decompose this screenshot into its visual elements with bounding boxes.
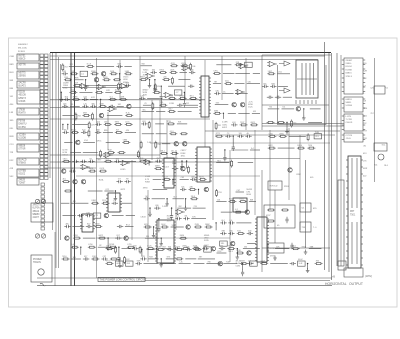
svg-text:750: 750 — [269, 107, 272, 109]
wire top-mid-right cluster r3 — [247, 82, 260, 84]
input jack block J8 — [17, 133, 39, 140]
transistor Q209 — [232, 103, 236, 107]
input jack block J9 — [17, 144, 39, 152]
svg-text:+B: +B — [332, 276, 335, 279]
svg-text:C67: C67 — [116, 235, 119, 237]
op-amp A5 — [163, 92, 173, 97]
svg-text:24629: 24629 — [19, 180, 26, 182]
svg-text:982: 982 — [118, 104, 121, 106]
svg-text:C65: C65 — [181, 177, 184, 179]
svg-text:627: 627 — [84, 256, 87, 258]
wire mid-middle band r3 — [162, 143, 171, 145]
wire mid-left band r1 — [62, 115, 74, 117]
wire lower-middle field r1 — [180, 177, 189, 179]
svg-text:R57R: R57R — [229, 199, 234, 201]
svg-text:58L1: 58L1 — [161, 150, 165, 152]
svg-text:2680: 2680 — [182, 246, 186, 248]
junction with drop top-left amp cluster r2 — [119, 73, 120, 79]
wire mid-middle band r1 — [155, 123, 164, 125]
resistor R223 — [75, 113, 81, 121]
svg-text:106: 106 — [192, 66, 195, 68]
wire vertical branch 9 — [288, 128, 290, 200]
wire bottom band r2 — [206, 261, 222, 263]
svg-text:06KR: 06KR — [155, 166, 160, 168]
transistor Q388 — [124, 236, 128, 240]
resistor R184 — [152, 102, 154, 110]
wire lower-middle field r4 — [177, 206, 191, 208]
resistor R181 — [179, 95, 187, 99]
svg-text:L99: L99 — [87, 213, 90, 215]
far right pin labels — [363, 63, 368, 178]
top left corner notes — [18, 44, 29, 53]
svg-text:33L9: 33L9 — [191, 196, 195, 198]
svg-text:380: 380 — [91, 103, 94, 105]
wire main vertical bus B — [74, 53, 76, 286]
svg-text:380A2: 380A2 — [33, 210, 40, 213]
wire right bus 2 — [328, 53, 330, 272]
wire right bus 1 — [324, 42, 326, 270]
svg-text:K73: K73 — [167, 257, 170, 259]
svg-text:64953: 64953 — [346, 99, 353, 101]
junction with drop lower-left field r6 — [106, 237, 110, 250]
svg-text:C25: C25 — [370, 88, 373, 90]
svg-text:293: 293 — [63, 71, 66, 73]
svg-text:5.0R: 5.0R — [71, 244, 76, 246]
resistor R180 — [168, 95, 176, 99]
op-amp A2 — [96, 84, 106, 89]
junction with drop top-middle cluster r6 — [161, 98, 162, 107]
svg-text:R0AT9: R0AT9 — [19, 112, 27, 115]
junction with drop lower-left field r2 — [114, 190, 118, 200]
svg-text:R7.5: R7.5 — [190, 95, 194, 97]
svg-text:C.L: C.L — [232, 148, 235, 150]
wire mid rail 1 — [50, 99, 205, 101]
svg-text:T501: T501 — [350, 215, 356, 217]
op-amp A8 — [235, 89, 245, 94]
svg-text:958C9: 958C9 — [19, 59, 26, 61]
op-amp A15 — [175, 209, 185, 214]
capacitor C od1 — [290, 243, 293, 249]
resistor R468 — [216, 189, 222, 197]
wire lower-left field r8 — [72, 257, 81, 259]
wire lower-left field r3 — [71, 201, 88, 203]
potentiometer VR1 — [35, 199, 39, 203]
svg-text:54.: 54. — [302, 208, 305, 210]
svg-text:212: 212 — [186, 103, 189, 105]
IC U301 sync — [195, 147, 212, 182]
tuner unit block — [31, 203, 53, 222]
capacitor C458 — [185, 247, 191, 252]
svg-text:57KC: 57KC — [213, 70, 218, 72]
op-amp A14 — [143, 159, 153, 164]
svg-text:9339: 9339 — [228, 246, 232, 248]
flyback transformer T501 — [344, 156, 363, 277]
resistor R126 — [117, 83, 119, 91]
resistor R473 — [228, 199, 236, 203]
wire top-left amp cluster r3 — [74, 78, 84, 80]
svg-text:C06K: C06K — [99, 103, 104, 105]
input jack block J1 — [17, 54, 39, 61]
capacitor C355 — [124, 179, 130, 184]
capacitor C375 — [64, 224, 70, 229]
svg-text:R5K.: R5K. — [64, 77, 69, 79]
op-amp A13 — [80, 164, 90, 169]
resistor R334 — [277, 122, 285, 124]
output sub-circuit box — [264, 205, 295, 228]
note block mid-middle band r4 — [181, 150, 188, 157]
resistor R346 — [297, 145, 305, 149]
capacitor C366 — [112, 200, 118, 205]
capacitor C401 — [101, 256, 107, 261]
svg-text:R.1: R.1 — [385, 88, 388, 90]
svg-text:6KL104C: 6KL104C — [18, 48, 28, 50]
wire top-middle cluster r8 — [156, 111, 165, 113]
power low control note bar — [98, 277, 147, 281]
op-amp A10 — [107, 106, 117, 111]
wire top-right pre-IF r3 — [278, 85, 288, 87]
resistor R446 — [205, 224, 213, 228]
connector pin strip P2 — [41, 183, 44, 230]
svg-text:K57: K57 — [87, 224, 90, 226]
resistor R340 — [279, 133, 287, 137]
svg-text:R915: R915 — [160, 70, 165, 72]
wire lower-left field r4 — [63, 215, 76, 217]
svg-text:KL0C: KL0C — [298, 259, 303, 261]
junction with drop top-middle cluster r4 — [160, 86, 163, 101]
svg-text:.82: .82 — [99, 245, 102, 247]
junction with drop lower-left field r7 — [80, 247, 81, 255]
note block lower-mid-right field r1 — [246, 189, 252, 196]
capacitor C135 — [64, 96, 70, 101]
svg-text:512R6: 512R6 — [346, 105, 353, 107]
resistor R383 — [73, 235, 81, 239]
svg-text:TRANS: TRANS — [33, 261, 41, 264]
wire vertical branch 2 — [151, 100, 153, 160]
capacitor C187 — [177, 104, 183, 107]
capacitor C513 — [219, 246, 225, 251]
svg-text:45.: 45. — [71, 104, 74, 106]
wire bottom left of output stage — [261, 170, 263, 272]
svg-text:CC2: CC2 — [105, 189, 109, 191]
svg-text:C7.: C7. — [363, 86, 367, 88]
wire mid-middle band r1 — [177, 122, 187, 124]
svg-text:020L: 020L — [269, 133, 273, 135]
resistor R288 — [137, 150, 139, 158]
svg-text:401: 401 — [217, 199, 220, 201]
svg-text:13.L: 13.L — [171, 150, 175, 152]
svg-text:L68R: L68R — [120, 96, 125, 98]
junction with drop mid-right band r4 — [223, 149, 226, 161]
svg-text:7K16: 7K16 — [62, 256, 66, 258]
svg-text:07R8: 07R8 — [179, 95, 184, 97]
transistor Q372 — [104, 213, 108, 217]
svg-text:252: 252 — [157, 158, 160, 160]
svg-text:2K1: 2K1 — [218, 125, 221, 127]
resistor R254 — [100, 150, 102, 158]
svg-text:5817: 5817 — [268, 71, 272, 73]
wire lower-left field r6 — [83, 237, 96, 239]
transistor Q382 — [65, 236, 69, 240]
resistor R445 — [194, 224, 202, 228]
IC U302 — [162, 158, 176, 188]
svg-text:C34: C34 — [83, 96, 86, 98]
capacitor C320 — [245, 133, 251, 138]
module block bottom band r2 — [250, 261, 258, 266]
resistor R519 — [292, 246, 300, 250]
wire lower-left field r4 — [126, 215, 135, 217]
svg-text:953: 953 — [168, 247, 171, 249]
junction with drop top-left amp cluster r5 — [60, 92, 64, 102]
transistor Q494 — [247, 251, 251, 255]
svg-text:2C0: 2C0 — [278, 72, 281, 74]
svg-text:365: 365 — [263, 83, 266, 85]
svg-text:RLRC: RLRC — [199, 176, 205, 178]
junction with drop bottom band r1 — [156, 248, 157, 257]
resistor R474 — [239, 199, 247, 203]
svg-text:LK50: LK50 — [105, 158, 109, 160]
heater block — [342, 133, 365, 142]
junction with drop lower-middle field r5 — [157, 218, 160, 232]
junction with drop lower-middle field r3 — [165, 198, 169, 206]
resistor R196 — [213, 70, 221, 74]
wire mid-left band r3 — [125, 130, 136, 132]
wire top-mid-right cluster r5 — [215, 103, 229, 105]
wire right band r1 — [310, 108, 321, 110]
svg-text:B.REG: B.REG — [270, 248, 277, 250]
svg-text:7LK2: 7LK2 — [239, 199, 243, 201]
svg-text:045: 045 — [248, 82, 251, 84]
note block top-mid-right cluster r5 — [248, 102, 254, 109]
ground og2 — [273, 256, 277, 261]
junction with drop mid-left band r2 — [67, 124, 68, 130]
svg-text:8K1: 8K1 — [70, 64, 73, 66]
resistor R214 — [267, 71, 275, 75]
capacitor C419 — [144, 196, 150, 201]
svg-text:552R: 552R — [103, 77, 108, 79]
wire vertical branch 16 — [254, 130, 256, 215]
wire bottom band r1 — [122, 248, 131, 250]
svg-text:L13C: L13C — [125, 121, 130, 123]
wire right rail 3 — [262, 123, 344, 125]
junction with drop top-middle cluster r3 — [148, 79, 152, 88]
wire top-middle cluster r8 — [142, 109, 155, 111]
note block top-middle cluster r2 — [143, 69, 149, 76]
wire top bus 3 — [50, 59, 318, 61]
svg-text:392: 392 — [178, 206, 181, 208]
svg-text:M5775: M5775 — [19, 73, 27, 75]
capacitor C499 — [247, 261, 253, 266]
svg-text:78L: 78L — [64, 129, 67, 131]
resistor R232 — [88, 121, 95, 129]
svg-text:CRL: CRL — [215, 91, 219, 93]
svg-text:08C1: 08C1 — [251, 122, 256, 124]
svg-text:009: 009 — [63, 103, 66, 105]
svg-text:C37: C37 — [103, 256, 106, 258]
svg-text:424: 424 — [232, 122, 235, 124]
capacitor C481 — [228, 220, 234, 225]
resistor R153 — [181, 63, 189, 67]
resistor R228 — [125, 113, 133, 117]
resistor R235 — [114, 121, 122, 125]
capacitor C480 — [220, 220, 226, 225]
resistor R269 — [88, 168, 96, 172]
junction with drop top-left amp cluster r3 — [84, 79, 87, 91]
wire top supply bus B+ — [50, 52, 331, 54]
svg-text:R.4C: R.4C — [126, 113, 131, 115]
resistor R146 — [99, 103, 107, 107]
resistor R514 — [227, 246, 235, 250]
wire vertical branch 19 — [221, 56, 223, 100]
svg-text:9.4: 9.4 — [251, 148, 254, 150]
wire right band r1 — [268, 107, 280, 109]
wire top bus 2 — [50, 55, 325, 57]
resistor R152 — [170, 63, 178, 67]
capacitor C387 — [115, 235, 121, 240]
wire mid rail 3 — [50, 154, 160, 156]
wire top-mid-right cluster r2 — [235, 72, 250, 74]
svg-text:K801: K801 — [92, 200, 96, 202]
svg-text:9895: 9895 — [115, 121, 119, 123]
svg-text:007K: 007K — [268, 145, 273, 147]
resistor R509 — [182, 246, 190, 250]
transistor Q512 — [211, 247, 215, 251]
wire top-middle cluster r1 — [141, 64, 152, 66]
wire mid-left band r5 — [83, 152, 98, 154]
svg-text:THE POWER LOW CONTROL CIRCUIT: THE POWER LOW CONTROL CIRCUIT — [100, 278, 147, 282]
svg-text:1C3EA: 1C3EA — [19, 134, 27, 137]
transistor Q478 — [245, 210, 249, 214]
resistor R280 — [169, 131, 177, 135]
wire right band r2 — [308, 122, 322, 124]
wire bottom band r1 — [243, 247, 260, 249]
svg-text:.436: .436 — [189, 187, 193, 189]
svg-text:L70: L70 — [83, 103, 86, 105]
note block top-left amp cluster r4 — [63, 82, 69, 89]
high voltage block — [374, 86, 385, 94]
junction with drop mid-left band r2 — [62, 124, 63, 130]
arrow input IF 1 — [279, 61, 290, 66]
capacitor C370 — [85, 213, 91, 218]
svg-text:2K0R7: 2K0R7 — [346, 60, 353, 62]
capacitor C486 — [247, 231, 253, 236]
svg-text:276: 276 — [194, 206, 197, 208]
wire right outline vertical — [261, 55, 263, 130]
wire lower-mid-right field r7 — [217, 251, 227, 253]
wire lower-left field r4 — [112, 215, 124, 217]
svg-text:008449L2: 008449L2 — [18, 44, 29, 46]
resistor R164 — [162, 77, 170, 81]
module block bottom band r2 — [298, 259, 306, 266]
junction with drop top-middle cluster r3 — [153, 79, 156, 93]
wire top-left amp cluster r6 — [90, 97, 98, 99]
svg-text:U33DB: U33DB — [19, 138, 27, 140]
capacitor C369 — [77, 214, 83, 217]
svg-text:3RU3T: 3RU3T — [33, 205, 41, 207]
op-amp A3 — [119, 83, 129, 88]
wire vertical branch 6 — [212, 120, 214, 220]
svg-text:61.3: 61.3 — [170, 131, 174, 133]
svg-text:045: 045 — [220, 246, 223, 248]
resistor R108 — [70, 71, 78, 75]
resistor R225 — [91, 113, 93, 121]
svg-text:758: 758 — [78, 116, 81, 118]
svg-text:C0R: C0R — [91, 124, 95, 126]
junction with drop top-middle cluster r5 — [183, 92, 186, 108]
resistor R101 — [62, 63, 68, 71]
resistor R459 — [194, 247, 202, 251]
svg-text:K054: K054 — [180, 235, 184, 237]
junction with drop right band r1 — [302, 108, 306, 120]
wire vertical branch 18 — [147, 190, 149, 262]
note block top-middle cluster r5 — [143, 89, 150, 96]
svg-text:505: 505 — [181, 187, 184, 189]
capacitor C217 — [270, 83, 276, 88]
drive box 2 — [300, 222, 317, 232]
module block lower-mid-right field r6 — [220, 241, 228, 246]
resistor R314 — [240, 122, 248, 126]
resistor R270 — [99, 168, 107, 172]
wire bottom frame — [37, 285, 332, 287]
wire top-middle cluster r4 — [168, 85, 185, 87]
capacitor C137 — [82, 96, 88, 101]
wire vertical branch 7 — [229, 150, 231, 262]
resistor R493 — [236, 250, 244, 254]
svg-text:FBT: FBT — [350, 211, 355, 213]
resistor R326 — [231, 160, 233, 168]
svg-text:2ACF8: 2ACF8 — [19, 82, 27, 85]
resistor R119 — [103, 77, 111, 81]
svg-text:59C: 59C — [10, 176, 14, 178]
capacitor C354 — [116, 179, 122, 184]
transistor Q488 — [231, 241, 235, 245]
resistor R404 — [124, 256, 131, 264]
wire right rail 4 — [262, 125, 344, 127]
wire mid-left band r5 — [70, 152, 81, 154]
capacitor C145 — [90, 103, 96, 108]
resistor R356 — [64, 190, 72, 192]
svg-text:.76: .76 — [144, 103, 147, 105]
svg-text:.205: .205 — [163, 77, 167, 79]
wire top-mid-right cluster r4 — [222, 91, 233, 93]
wire top-left amp cluster r5 — [105, 90, 112, 92]
note block mid-left band r5 — [62, 150, 68, 157]
svg-text:17838: 17838 — [19, 110, 26, 112]
transistor Q out — [288, 168, 292, 172]
capacitor C237 — [62, 129, 68, 134]
svg-text:3RR8: 3RR8 — [73, 96, 78, 98]
svg-text:KCL: KCL — [382, 144, 386, 146]
wire mid-left band r6 — [122, 160, 136, 162]
resistor R339 — [268, 133, 276, 137]
svg-text:3K7: 3K7 — [199, 257, 202, 259]
note block mid-right band r2 — [222, 122, 228, 129]
resistor R136 — [72, 96, 80, 100]
junction with drop lower-middle field r1 — [172, 179, 173, 185]
resistor R240 — [88, 129, 90, 137]
resistor R115 — [64, 77, 72, 81]
resistor R157 — [159, 70, 167, 74]
svg-text:733.: 733. — [167, 121, 171, 123]
wire top-left amp cluster r4 — [102, 85, 117, 87]
capacitor C142 — [62, 103, 68, 108]
wire top-mid-right cluster r4 — [235, 91, 248, 93]
svg-text:KKR: KKR — [363, 168, 368, 170]
resistor R457 — [175, 247, 183, 251]
svg-text:8R0: 8R0 — [104, 130, 107, 132]
resistor R501 — [115, 246, 117, 254]
wire right rail 6 — [215, 134, 335, 136]
svg-text:C6LK9: C6LK9 — [346, 122, 353, 124]
